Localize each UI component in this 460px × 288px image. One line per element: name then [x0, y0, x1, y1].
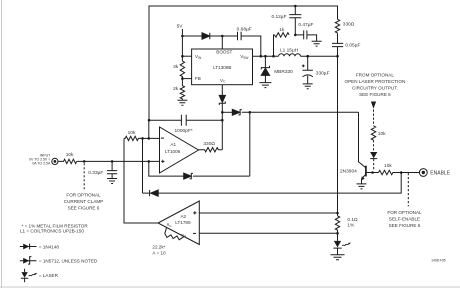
arrow from protection note: [371, 102, 376, 109]
wire FB stub: [182, 78, 191, 80]
resistor 10k A1 feedback top: [124, 136, 160, 140]
diode 1N5712 to collector line: [222, 111, 232, 113]
IC U1 LT1308B box: [192, 49, 253, 85]
svg-text:A1: A1: [170, 142, 176, 147]
svg-text:= LASER: = LASER: [39, 273, 59, 278]
capacitor 1000pF: [181, 115, 222, 126]
svg-text:1000pF*: 1000pF*: [175, 128, 193, 134]
wire cap tap riser: [148, 120, 150, 138]
laser diode: [334, 241, 341, 248]
wire A2 minus sense line: [199, 232, 337, 234]
wire L1 to output node: [301, 55, 338, 57]
svg-text:CIRCUITRY OUTPUT.: CIRCUITRY OUTPUT.: [352, 86, 398, 91]
capacitor 0.47uF: [295, 30, 316, 41]
wire VC pin down: [221, 85, 223, 96]
svg-text:L1 15µH: L1 15µH: [280, 47, 299, 53]
dashed wire protection lower: [373, 140, 375, 151]
ground laser: [331, 255, 345, 260]
diode 1N5712 A1 plus line: [184, 173, 192, 179]
ground 0.47uF: [312, 41, 322, 46]
svg-text:1%: 1%: [347, 222, 355, 228]
svg-text:OPEN LASER PROTECTION: OPEN LASER PROTECTION: [345, 79, 406, 84]
svg-text:SEE FIGURE 6: SEE FIGURE 6: [389, 223, 421, 228]
svg-text:CURRENT CLAMP: CURRENT CLAMP: [64, 199, 103, 204]
dashed wire protection upper: [373, 110, 375, 126]
svg-text:330Ω: 330Ω: [203, 141, 215, 147]
svg-text:MBR330: MBR330: [274, 69, 293, 75]
diode protection to base: [370, 152, 377, 158]
wire 5V to diode: [182, 35, 202, 37]
svg-text:0.33µF: 0.33µF: [88, 170, 103, 176]
legend diode 1N4148: [20, 246, 37, 248]
wire boost pin: [221, 36, 223, 49]
node snubber junction: [294, 34, 297, 37]
svg-text:LT1006: LT1006: [165, 149, 181, 154]
ground Q1 emitter: [357, 184, 367, 189]
ground 330uF: [303, 84, 313, 89]
svg-text:ENABLE: ENABLE: [430, 170, 450, 176]
dashed wire current clamp: [83, 163, 85, 189]
svg-text:22.2k*: 22.2k*: [152, 245, 165, 250]
svg-text:0A TO 2.5A: 0A TO 2.5A: [32, 161, 51, 165]
svg-text:SELF-ENABLE: SELF-ENABLE: [389, 217, 420, 222]
wire integrator cap line: [149, 119, 181, 121]
svg-text:1498 F05: 1498 F05: [431, 259, 445, 263]
svg-text:5V: 5V: [177, 24, 184, 30]
diode 1N4148 clamp on enable line: [143, 190, 150, 196]
svg-text:FOR OPTIONAL: FOR OPTIONAL: [387, 210, 422, 215]
capacitor 330uF: [303, 56, 313, 83]
resistor 330ohm top right: [335, 19, 339, 33]
svg-text:2k: 2k: [173, 86, 179, 92]
legend laser: [24, 269, 26, 272]
resistor 2k: [180, 79, 184, 100]
resistor 10k protection: [371, 126, 375, 140]
wire A2 plus sense line: [199, 212, 337, 214]
svg-text:2N3904: 2N3904: [340, 168, 357, 174]
capacitor 0.33uF: [107, 161, 117, 178]
wire 5712 node down to A1+ schottky line: [249, 112, 251, 176]
wire VSW line: [253, 55, 279, 57]
svg-text:A = 10: A = 10: [152, 250, 166, 255]
op-amp A2 LT1789: [158, 201, 199, 245]
ground 2k: [177, 100, 187, 105]
resistor 22.2k gain set: [165, 227, 184, 240]
resistor 0.1 ohm shunt: [335, 216, 339, 241]
svg-text:0.1Ω: 0.1Ω: [347, 217, 358, 223]
wire 5V rail: [181, 29, 183, 61]
inductor L1 15uH: [279, 54, 301, 56]
svg-text:330Ω: 330Ω: [343, 21, 355, 27]
input terminal J1: [52, 158, 58, 164]
wire input line to A1+: [77, 160, 160, 162]
svg-text:330µF: 330µF: [316, 71, 330, 77]
svg-text:A2: A2: [180, 214, 186, 219]
svg-text:BOOST: BOOST: [216, 50, 232, 55]
svg-text:FROM OPTIONAL: FROM OPTIONAL: [356, 73, 394, 78]
wire laser supply rail: [337, 56, 339, 216]
resistor 10k base: [379, 170, 420, 174]
node output rail top: [336, 55, 339, 58]
dashed wire self-enable: [407, 173, 409, 206]
page border bottom: [0, 286, 460, 288]
page border left: [1, 0, 3, 288]
capacitor 0.12uF: [289, 6, 301, 35]
diode MBR330: [264, 56, 266, 68]
wire top feedback loop: [149, 6, 338, 120]
node boost junction: [221, 35, 224, 38]
resistor 10k input: [58, 159, 77, 163]
transistor Q1 2N3904: [359, 112, 366, 168]
svg-text:0.68µF: 0.68µF: [237, 26, 252, 32]
wire base line: [366, 172, 379, 174]
laser squiggle: [342, 244, 348, 246]
resistor 1k: [274, 33, 290, 57]
svg-text:= 1N4148: = 1N4148: [39, 244, 59, 249]
svg-text:SEE FIGURE 6: SEE FIGURE 6: [68, 206, 100, 211]
wire A1 minus to clamp diode riser: [142, 138, 144, 193]
wire A1 plus node down: [149, 161, 184, 176]
resistor 3k: [180, 61, 184, 79]
svg-text:3k: 3k: [173, 64, 179, 70]
svg-text:= 1N5712, UNLESS NOTED: = 1N5712, UNLESS NOTED: [39, 259, 98, 264]
svg-text:0.05µF: 0.05µF: [345, 43, 360, 49]
svg-text:LT1308B: LT1308B: [213, 65, 231, 70]
capacitor 0.05uF: [332, 43, 343, 56]
svg-text:FB: FB: [195, 76, 201, 81]
legend diode 1N5712: [20, 260, 37, 262]
capacitor 0.68uF: [222, 32, 260, 57]
node top wire junction: [294, 5, 297, 8]
ground 0.33uF: [107, 179, 117, 184]
wire A2 output loop: [124, 138, 158, 223]
ground MBR330: [259, 83, 271, 88]
op-amp A1 LT1006: [160, 127, 199, 173]
svg-text:L1 = COILTRONICS UP2B-150: L1 = COILTRONICS UP2B-150: [20, 228, 84, 233]
wire VIN stub: [182, 55, 191, 57]
svg-text:LT1789: LT1789: [175, 220, 191, 225]
svg-text:SEE FIGURE 6: SEE FIGURE 6: [359, 92, 391, 97]
plus sign 330uF: [302, 65, 305, 68]
diode 1N5712 VC: [219, 95, 225, 102]
svg-text:1k: 1k: [279, 27, 285, 33]
svg-text:10k: 10k: [378, 131, 386, 137]
resistor 330ohm A1 output: [199, 148, 223, 152]
svg-text:10k: 10k: [384, 163, 392, 169]
diode 1N4148 5V feed: [202, 33, 210, 39]
svg-text:10k: 10k: [66, 152, 74, 158]
svg-text:0.47µF: 0.47µF: [298, 22, 313, 28]
svg-text:10k: 10k: [128, 130, 136, 136]
enable terminal: [419, 169, 427, 177]
svg-text:FOR OPTIONAL: FOR OPTIONAL: [66, 193, 101, 198]
svg-text:0.12µF: 0.12µF: [271, 14, 286, 20]
